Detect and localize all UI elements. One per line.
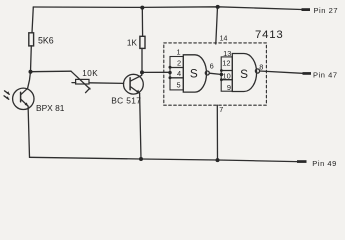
svg-text:S: S <box>240 67 248 81</box>
svg-text:9: 9 <box>227 83 231 92</box>
svg-text:5K6: 5K6 <box>38 35 54 45</box>
svg-text:S: S <box>190 66 198 80</box>
svg-text:13: 13 <box>223 49 231 58</box>
svg-text:BC 517: BC 517 <box>111 96 141 106</box>
svg-text:10K: 10K <box>82 69 98 78</box>
svg-text:Pin 49: Pin 49 <box>312 159 337 168</box>
svg-text:8: 8 <box>259 63 263 72</box>
svg-text:1K: 1K <box>127 38 138 47</box>
svg-text:5: 5 <box>177 81 181 90</box>
svg-text:1: 1 <box>177 47 181 56</box>
svg-text:7413: 7413 <box>255 29 284 41</box>
svg-text:6: 6 <box>210 62 214 71</box>
svg-text:Pin 27: Pin 27 <box>314 6 339 15</box>
svg-text:Pin 47: Pin 47 <box>313 70 338 79</box>
svg-text:12: 12 <box>222 59 230 68</box>
svg-text:14: 14 <box>220 36 228 43</box>
svg-text:10: 10 <box>222 71 230 80</box>
svg-text:2: 2 <box>177 58 181 67</box>
svg-text:7: 7 <box>219 105 223 114</box>
svg-text:4: 4 <box>177 69 181 78</box>
svg-text:BPX 81: BPX 81 <box>36 103 65 113</box>
